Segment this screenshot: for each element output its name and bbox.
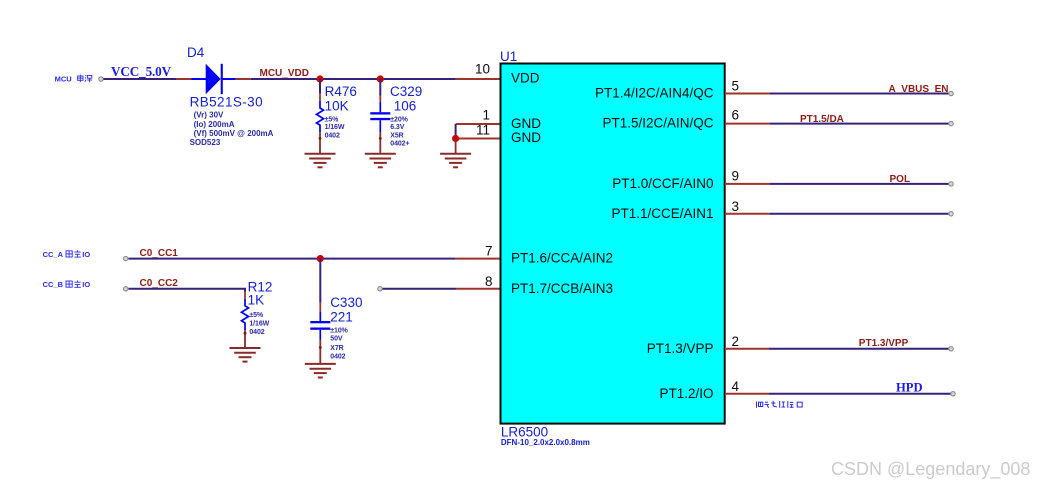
svg-text:CC_B: CC_B <box>43 280 64 289</box>
svg-text:0402+: 0402+ <box>390 140 409 147</box>
capacitor C329 <box>370 79 390 153</box>
svg-text:(Vr) 30V: (Vr) 30V <box>194 111 224 120</box>
svg-text:3: 3 <box>732 199 740 214</box>
svg-text:PT1.2/IO: PT1.2/IO <box>659 386 713 401</box>
end dot pin9 <box>949 182 953 186</box>
pin 9 <box>725 183 770 185</box>
svg-text:GND: GND <box>511 116 541 131</box>
svg-text:PT1.1/CCE/AIN1: PT1.1/CCE/AIN1 <box>611 206 713 221</box>
ground C330 <box>305 364 336 378</box>
ground R476 <box>305 154 336 168</box>
svg-text:10: 10 <box>475 61 490 76</box>
svg-text:1: 1 <box>482 107 490 122</box>
svg-text:PT1.4/I2C/AIN4/QC: PT1.4/I2C/AIN4/QC <box>595 86 714 101</box>
svg-text:0402: 0402 <box>325 132 340 139</box>
wire HPD <box>769 393 953 395</box>
svg-text:A_VBUS_EN: A_VBUS_EN <box>889 84 949 95</box>
svg-text:VDD: VDD <box>511 71 540 86</box>
svg-text:(Vf) 500mV @ 200mA: (Vf) 500mV @ 200mA <box>194 129 274 138</box>
junction at R476 <box>316 75 323 82</box>
junction at C329 <box>377 75 384 82</box>
wire PT1.5/DA <box>770 123 951 125</box>
port CC_B dot <box>124 287 128 291</box>
pin 8 <box>456 288 501 290</box>
svg-text:SOD523: SOD523 <box>190 138 221 147</box>
spec C330 <box>330 328 348 361</box>
svg-text:C330: C330 <box>330 295 362 310</box>
svg-text:C0_CC2: C0_CC2 <box>140 278 179 289</box>
svg-text:PT1.3/VPP: PT1.3/VPP <box>647 341 714 356</box>
resistor R12 <box>242 292 249 348</box>
svg-text:6: 6 <box>732 107 740 122</box>
spec C329 <box>390 116 409 147</box>
wire MCU_VDD rail <box>251 78 456 80</box>
port label CC_A guding IO <box>43 250 91 259</box>
svg-text:±5%: ±5% <box>249 312 264 319</box>
svg-text:106: 106 <box>394 99 417 114</box>
port CC_A dot <box>124 256 128 260</box>
svg-text:C329: C329 <box>390 84 422 99</box>
svg-text:MCU: MCU <box>55 75 72 84</box>
resistor R476 <box>317 79 324 154</box>
pin 1 <box>456 123 501 125</box>
svg-text:2: 2 <box>732 334 740 349</box>
wire VCC rail <box>104 78 177 80</box>
junction CC1 <box>317 255 324 262</box>
svg-text:U1: U1 <box>500 49 517 64</box>
svg-text:VCC_5.0V: VCC_5.0V <box>111 64 172 79</box>
port label MCU dianyuan <box>55 75 92 84</box>
svg-text:RB521S-30: RB521S-30 <box>190 94 263 109</box>
svg-text:PT1.6/CCA/AIN2: PT1.6/CCA/AIN2 <box>511 251 613 266</box>
svg-text:±5%: ±5% <box>325 116 340 123</box>
spec R476 <box>325 116 345 139</box>
wire CC2 <box>129 289 246 292</box>
svg-text:GND: GND <box>511 130 541 145</box>
svg-text:4: 4 <box>732 379 740 394</box>
end dot pin4 <box>951 392 955 396</box>
svg-text:PT1.3/VPP: PT1.3/VPP <box>859 338 909 349</box>
svg-text:C0_CC1: C0_CC1 <box>140 248 179 259</box>
pin 3 <box>725 213 770 215</box>
pin 10 <box>456 78 501 80</box>
svg-text:IO: IO <box>82 280 90 289</box>
svg-text:0402: 0402 <box>330 354 345 361</box>
ground GND pins <box>440 154 471 168</box>
end dot pin2 <box>949 347 953 351</box>
svg-text:221: 221 <box>330 310 353 325</box>
spec text D4 <box>190 111 274 147</box>
end dot pin3 <box>949 212 953 216</box>
svg-text:CSDN @Legendary_008: CSDN @Legendary_008 <box>831 459 1030 480</box>
svg-text:(Io) 200mA: (Io) 200mA <box>194 120 235 129</box>
wire PT1.3/VPP <box>769 348 951 350</box>
svg-text:1/16W: 1/16W <box>325 124 345 131</box>
svg-text:8: 8 <box>485 274 493 289</box>
svg-text:0402: 0402 <box>249 329 264 336</box>
svg-text:CC_A: CC_A <box>43 250 64 259</box>
wire CC1 <box>129 258 456 260</box>
junction GND <box>452 135 459 142</box>
pin 5 <box>725 93 770 95</box>
wire to ground <box>455 139 457 154</box>
svg-text:PT1.5/DA: PT1.5/DA <box>800 114 844 125</box>
svg-text:±10%: ±10% <box>330 328 348 335</box>
wire POL <box>770 183 951 185</box>
spec R12 <box>249 312 269 336</box>
pin 2 <box>725 348 769 350</box>
svg-text:50V: 50V <box>330 335 343 342</box>
svg-text:IO: IO <box>82 250 90 259</box>
capacitor C330 <box>310 303 330 364</box>
svg-text:X7R: X7R <box>330 345 343 352</box>
svg-text:HPD: HPD <box>896 380 923 394</box>
pin 11 <box>456 138 501 140</box>
wire pin 8 <box>380 288 456 290</box>
svg-text:1/16W: 1/16W <box>249 321 269 328</box>
svg-text:10K: 10K <box>325 99 349 114</box>
label debug print port <box>757 401 803 408</box>
svg-text:PT1.5/I2C/AIN/QC: PT1.5/I2C/AIN/QC <box>602 116 713 131</box>
wire GND link <box>455 124 457 139</box>
svg-text:1K: 1K <box>248 293 265 308</box>
IC U1 body <box>501 64 725 424</box>
pin 7 <box>456 258 501 260</box>
pin 6 <box>725 123 770 125</box>
ground R12 <box>230 348 261 362</box>
no connect dot pin 8 <box>378 287 382 291</box>
svg-text:POL: POL <box>890 174 911 185</box>
pin 4 <box>725 393 769 395</box>
svg-text:D4: D4 <box>187 45 205 60</box>
svg-text:5: 5 <box>732 79 740 94</box>
port label CC_B guding IO <box>43 280 91 289</box>
svg-text:6.3V: 6.3V <box>390 124 404 131</box>
port MCU power dot <box>99 77 103 81</box>
wire A_VBUS_EN <box>770 93 951 95</box>
svg-text:MCU_VDD: MCU_VDD <box>260 68 309 79</box>
svg-text:PT1.0/CCF/AIN0: PT1.0/CCF/AIN0 <box>612 176 713 191</box>
svg-text:9: 9 <box>732 168 740 183</box>
ground C329 <box>365 154 396 168</box>
svg-text:PT1.7/CCB/AIN3: PT1.7/CCB/AIN3 <box>511 281 613 296</box>
svg-text:11: 11 <box>476 123 490 138</box>
diode D4 <box>177 64 251 94</box>
svg-text:±20%: ±20% <box>390 116 408 123</box>
end dot pin6 <box>949 121 953 125</box>
svg-text:7: 7 <box>485 244 493 259</box>
wire pin3 <box>770 213 951 215</box>
svg-text:R476: R476 <box>325 84 357 99</box>
svg-text:X5R: X5R <box>390 132 403 139</box>
svg-text:DFN-10_2.0x2.0x0.8mm: DFN-10_2.0x2.0x0.8mm <box>501 438 590 447</box>
wire CC1 to C330 <box>319 259 321 303</box>
end dot pin5 <box>949 91 953 95</box>
